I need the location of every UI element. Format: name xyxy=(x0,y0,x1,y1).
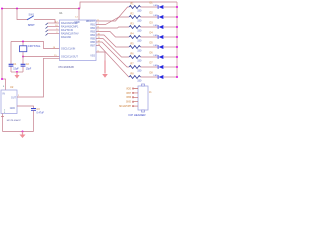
node rail row 3 xyxy=(176,26,178,28)
crystal X1 body xyxy=(20,42,27,57)
node rail row 7 xyxy=(176,66,178,68)
wire stub pin17 xyxy=(48,22,60,24)
resistor R3 xyxy=(129,22,142,32)
svg-text:R5: R5 xyxy=(131,42,135,45)
node rail row 8 xyxy=(176,76,178,78)
crystal X1 top rail wire to OSC1 xyxy=(11,42,60,49)
svg-text:GND: GND xyxy=(126,102,131,104)
svg-text:U2: U2 xyxy=(10,85,14,89)
svg-text:LED: LED xyxy=(154,55,159,57)
svg-text:LED: LED xyxy=(154,45,159,47)
wire riser to LED anode rail xyxy=(80,2,177,9)
svg-text:LED: LED xyxy=(154,5,159,7)
connector J1 net labels xyxy=(119,88,131,108)
wire U2 OUT riser to MCLR pin xyxy=(17,58,60,97)
svg-text:LED: LED xyxy=(154,35,159,37)
svg-text:RB7: RB7 xyxy=(127,93,132,95)
svg-text:C2: C2 xyxy=(26,63,30,66)
connector J1 ICSP header body xyxy=(138,84,148,112)
wire R7 to D7 xyxy=(141,66,158,68)
wire R5 to D5 xyxy=(141,46,158,48)
wire D1 to rail xyxy=(164,6,177,8)
resistor R6 xyxy=(129,52,142,62)
pin numbers U1 left xyxy=(53,21,59,57)
svg-text:PIC16F628: PIC16F628 xyxy=(59,65,75,69)
node rail row 4 xyxy=(176,36,178,38)
microcontroller U1 PIC16F628 body xyxy=(60,20,97,61)
resistor R1 xyxy=(129,2,142,12)
wire switch drop xyxy=(17,9,27,20)
svg-text:330: 330 xyxy=(137,79,142,82)
svg-text:OUT: OUT xyxy=(11,96,17,99)
svg-text:J1: J1 xyxy=(149,91,152,94)
svg-text:R6: R6 xyxy=(131,52,135,55)
svg-text:IN: IN xyxy=(3,93,6,96)
wire U2 to C3 xyxy=(17,106,34,108)
svg-text:OSC1/CLKIN: OSC1/CLKIN xyxy=(61,48,75,51)
wire RB5 fan row6 xyxy=(96,39,129,58)
svg-text:SW1: SW1 xyxy=(29,12,35,16)
svg-text:LED: LED xyxy=(154,75,159,77)
node VDD-left corner xyxy=(1,8,3,10)
svg-text:LED: LED xyxy=(154,65,159,67)
regulator U2 body xyxy=(1,90,17,114)
node crystal bottom / C2 tap xyxy=(22,56,24,58)
resistor R4 xyxy=(129,32,142,42)
LED D4 xyxy=(150,32,164,39)
capacitor C3 xyxy=(31,108,44,132)
wire D8 to rail xyxy=(164,76,177,78)
pin names U1 right column xyxy=(86,20,96,58)
svg-text:330: 330 xyxy=(137,39,142,42)
pin names U2 xyxy=(3,93,17,110)
LED D7 xyxy=(150,62,164,69)
switch SW1 blade xyxy=(27,16,34,20)
svg-text:CRYSTAL: CRYSTAL xyxy=(28,44,41,48)
svg-text:15pF: 15pF xyxy=(13,67,19,70)
node switch tap xyxy=(16,8,18,10)
wire D2 to rail xyxy=(164,16,177,18)
svg-text:330: 330 xyxy=(137,49,142,52)
svg-text:330: 330 xyxy=(137,29,142,32)
wire bottom ground rail xyxy=(3,131,34,133)
svg-text:LED: LED xyxy=(154,15,159,17)
svg-text:1: 1 xyxy=(18,95,20,97)
resistor R7 xyxy=(129,62,142,72)
wire R1 to D1 xyxy=(141,6,158,8)
wire RB1 fan row2 xyxy=(96,17,129,25)
wire stub pin18 xyxy=(48,26,60,28)
svg-text:GND: GND xyxy=(10,107,16,110)
svg-text:R2: R2 xyxy=(131,12,135,15)
connector J1 pin stubs xyxy=(132,88,138,107)
wire VDD top rail xyxy=(2,8,79,10)
node bottom ground junction xyxy=(22,131,24,133)
wire LED anode rail xyxy=(176,2,178,77)
LED D1 xyxy=(150,2,164,9)
pin numbers U1 right xyxy=(98,19,101,52)
svg-text:U1: U1 xyxy=(59,11,63,15)
wire caps to ground xyxy=(11,71,23,73)
svg-text:R3: R3 xyxy=(131,22,135,25)
capacitor C1 xyxy=(9,42,20,73)
svg-text:330: 330 xyxy=(137,9,142,12)
node VDD pin tap xyxy=(78,8,80,10)
LED D3 xyxy=(150,22,164,29)
wire VSS to ground xyxy=(96,52,105,61)
svg-text:VDD: VDD xyxy=(126,88,131,90)
wire RB3 fan row4 xyxy=(96,32,129,38)
svg-text:14: 14 xyxy=(75,17,78,19)
svg-text:SPDT: SPDT xyxy=(28,23,35,27)
node caps ground junction xyxy=(16,71,18,73)
wire VDD pin 14 xyxy=(78,9,80,21)
svg-text:LED: LED xyxy=(154,25,159,27)
wire U2 gnd pin drop xyxy=(1,114,4,132)
wire OSC2 rail xyxy=(23,56,60,58)
wire D4 to rail xyxy=(164,36,177,38)
svg-text:RB7: RB7 xyxy=(90,44,95,47)
svg-text:MC78L05ACP: MC78L05ACP xyxy=(7,119,22,122)
LED D8 xyxy=(150,72,164,79)
wire left 9V rail xyxy=(2,9,6,91)
svg-text:VSS: VSS xyxy=(90,55,95,58)
wire D3 to rail xyxy=(164,26,177,28)
ground (U1 VSS) xyxy=(102,74,108,78)
svg-text:330: 330 xyxy=(137,69,142,72)
wire RB2 fan row3 xyxy=(96,27,129,28)
svg-text:8: 8 xyxy=(3,86,5,88)
resistor R8 xyxy=(129,72,142,82)
wire R8 to D8 xyxy=(141,76,158,78)
node rail row 2 xyxy=(176,16,178,18)
svg-text:0.47uF: 0.47uF xyxy=(37,112,45,115)
wire R3 to D3 xyxy=(141,26,158,28)
node rail row 6 xyxy=(176,56,178,58)
resistor R5 xyxy=(129,42,142,52)
ground (crystal caps) xyxy=(15,72,20,79)
svg-text:330: 330 xyxy=(137,19,142,22)
svg-text:RA0/AN0: RA0/AN0 xyxy=(61,36,72,39)
wire R4 to D4 xyxy=(141,36,158,38)
wire RB0 fan row1 xyxy=(96,7,129,21)
node rail row 1 xyxy=(176,6,178,8)
svg-text:R8: R8 xyxy=(131,72,135,75)
svg-text:C1: C1 xyxy=(13,63,17,66)
LED D6 xyxy=(150,52,164,59)
wire R6 to D6 xyxy=(141,56,158,58)
svg-text:RB6: RB6 xyxy=(127,97,132,99)
svg-text:R4: R4 xyxy=(131,32,135,35)
wire switch to RA pin xyxy=(34,20,55,24)
wire D5 to rail xyxy=(164,46,177,48)
svg-text:330: 330 xyxy=(137,59,142,62)
wire D6 to rail xyxy=(164,56,177,58)
wire RB7 fan row8 xyxy=(96,46,129,78)
svg-text:R1: R1 xyxy=(131,2,135,5)
svg-text:OSC2/CLKOUT: OSC2/CLKOUT xyxy=(61,56,78,59)
svg-text:ICP HEADER: ICP HEADER xyxy=(129,113,146,117)
svg-text:MCLR/VPP: MCLR/VPP xyxy=(119,106,131,108)
wire stub pin2 xyxy=(48,33,60,35)
node crystal top xyxy=(22,41,24,43)
LED D5 xyxy=(150,42,164,49)
svg-text:VDD: VDD xyxy=(75,21,80,24)
svg-text:R7: R7 xyxy=(131,62,135,65)
ground (regulator) xyxy=(20,132,26,139)
LED D2 xyxy=(150,12,164,19)
capacitor C2 xyxy=(21,57,32,73)
wire stub pin1 xyxy=(48,29,60,31)
wire RB6 fan row7 xyxy=(96,42,129,67)
svg-text:C3: C3 xyxy=(37,108,41,111)
resistor-LED output rows xyxy=(129,2,178,83)
wire D7 to rail xyxy=(164,66,177,68)
wire R2 to D2 xyxy=(141,16,158,18)
node rail row 5 xyxy=(176,46,178,48)
wire RB4 fan row5 xyxy=(96,35,129,47)
svg-text:15pF: 15pF xyxy=(26,67,32,70)
resistor R2 xyxy=(129,12,142,22)
node regulator input corner xyxy=(1,78,3,80)
pin names U1 left column xyxy=(61,21,80,59)
